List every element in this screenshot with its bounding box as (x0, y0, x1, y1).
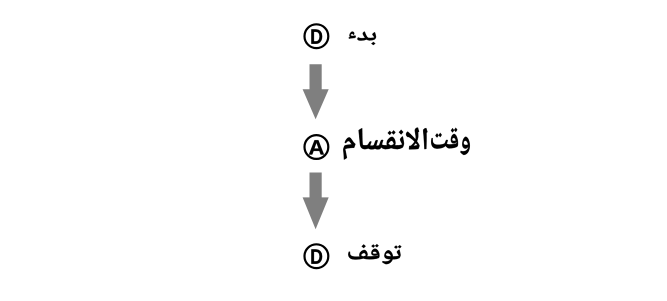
division-time label word "الانقسام" (343, 128, 427, 160)
arrow 1 (303, 64, 329, 119)
start node circled-D (305, 24, 329, 48)
division-time node circled-A (305, 135, 329, 159)
stop label "توقف" (348, 244, 401, 264)
arrow 2 (303, 173, 329, 230)
start label "بدء" hamza (349, 32, 356, 39)
start label "بدء" beh-dal (357, 32, 376, 45)
division-time label word "وقت" (431, 128, 470, 155)
stop node circled-D (305, 244, 329, 268)
